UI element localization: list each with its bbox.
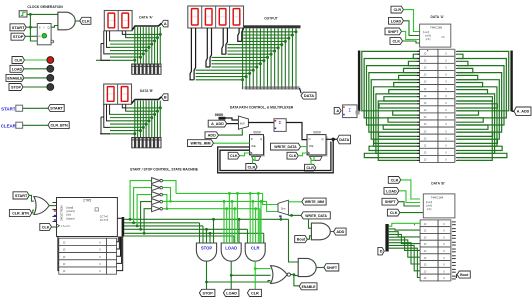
svg-text:,D: ,D bbox=[424, 151, 427, 155]
svg-text:CLK: CLK bbox=[289, 154, 297, 158]
svg-text:Dmx: Dmx bbox=[281, 208, 287, 210]
svg-text:Bout: Bout bbox=[460, 273, 469, 277]
wire cells left stair (black) bbox=[57, 237, 60, 272]
svg-text:,D: ,D bbox=[424, 73, 427, 77]
svg-text:CLK: CLK bbox=[392, 40, 400, 44]
wire LOAD to LED bbox=[24, 68, 47, 70]
wire state bus lines (6) bbox=[124, 219, 289, 236]
wire feedback loop outer bbox=[218, 139, 334, 173]
svg-text:B: B bbox=[164, 96, 167, 100]
svg-text:STOP: STOP bbox=[13, 34, 24, 39]
svg-text:,D: ,D bbox=[424, 242, 427, 246]
register U15 head (74HC166) bbox=[420, 24, 451, 47]
terminal WRITE_IMM (out) bbox=[302, 198, 326, 205]
wire fan reg A right chain upper bbox=[457, 54, 497, 108]
node STOP branch bbox=[205, 281, 208, 284]
svg-text:,D: ,D bbox=[424, 122, 427, 126]
wire bus bar to A_ADD bbox=[512, 110, 514, 112]
node DATA junction bbox=[332, 138, 335, 141]
wire output grid verticals bbox=[243, 28, 296, 87]
svg-text:Bout: Bout bbox=[297, 238, 306, 242]
svg-text:74HC164: 74HC164 bbox=[431, 196, 444, 200]
bus bar (reg A right) bbox=[510, 51, 512, 112]
svg-text:,D: ,D bbox=[424, 249, 427, 253]
node bus taps bbox=[212, 218, 215, 221]
svg-text:[clk]: [clk] bbox=[426, 37, 431, 41]
terminal SHIFT (reg B) bbox=[382, 198, 399, 205]
register U15 cells (16 rows) bbox=[417, 49, 457, 162]
wire fan reg A left chain lower bbox=[364, 111, 419, 158]
wire CLK to reg B bbox=[400, 212, 423, 214]
svg-text:LOAD: LOAD bbox=[226, 291, 237, 295]
wire black bus to terminal bbox=[132, 23, 161, 30]
svg-text:ENABLE: ENABLE bbox=[302, 285, 317, 289]
svg-text:WRITE_DATA: WRITE_DATA bbox=[274, 145, 297, 149]
NOR gate U43 bbox=[271, 266, 288, 284]
wire display pin stair (black) bbox=[122, 104, 126, 111]
inverter U31 bbox=[152, 185, 160, 191]
terminal A_ADD (input) bbox=[208, 120, 227, 127]
wire fan reg A right chain lower bbox=[457, 111, 507, 158]
wire CLK to counter bbox=[52, 226, 57, 228]
terminal STOP bbox=[11, 33, 25, 40]
terminal CLR (reg1) bbox=[246, 164, 257, 171]
svg-text:[clk]: [clk] bbox=[427, 207, 432, 211]
terminal LOAD (reg B) bbox=[384, 187, 399, 194]
wire H2 corner to mux input bbox=[267, 201, 278, 211]
svg-text:,D: ,D bbox=[424, 222, 427, 226]
wire mux out to adder bbox=[248, 122, 274, 124]
terminal START (state machine) bbox=[13, 192, 29, 199]
adder U11 bbox=[274, 119, 286, 132]
connector strip (grid bottom) bbox=[245, 86, 300, 89]
terminal A (bus) bbox=[334, 107, 341, 114]
terminal CLK (reg A) bbox=[390, 38, 403, 45]
svg-text:[down]: [down] bbox=[67, 216, 75, 220]
wire output grid rows with junctions bbox=[196, 30, 298, 81]
multiplexer U45 (demux) bbox=[278, 200, 288, 215]
terminal LOAD (reg A) bbox=[389, 17, 404, 24]
wire Bout to AND bbox=[307, 236, 311, 239]
svg-text:,D: ,D bbox=[424, 229, 427, 233]
wire switch START to terminal bbox=[23, 107, 48, 109]
svg-text:,D: ,D bbox=[63, 262, 66, 266]
terminal LOAD (out) bbox=[223, 289, 239, 296]
svg-text:STOP: STOP bbox=[11, 86, 22, 90]
svg-text:S: S bbox=[43, 25, 45, 29]
svg-text:,D: ,D bbox=[424, 263, 427, 267]
svg-text:DATA: DATA bbox=[304, 93, 314, 98]
svg-text:WRITE_IMM: WRITE_IMM bbox=[190, 142, 210, 146]
svg-text:CLEAR: CLEAR bbox=[1, 123, 17, 128]
svg-text:[load]: [load] bbox=[426, 200, 433, 204]
state cells (5 rows) bbox=[59, 238, 117, 274]
multiplexer U10 bbox=[238, 116, 248, 129]
AND gate U46 (ADD) bbox=[311, 223, 330, 240]
terminal D (bus) bbox=[378, 247, 384, 255]
svg-text:,D: ,D bbox=[63, 269, 66, 273]
svg-text:0000: 0000 bbox=[313, 131, 321, 135]
terminal CLK (state machine) bbox=[40, 223, 52, 230]
OR gate U20 bbox=[34, 197, 49, 215]
svg-text:CLR_BTN: CLR_BTN bbox=[12, 212, 29, 216]
AND gate LOAD (U41) bbox=[221, 243, 241, 261]
svg-text:CLR: CLR bbox=[14, 59, 22, 63]
resistor pack RN (B) bbox=[131, 137, 161, 148]
LED D_LOAD bbox=[47, 65, 54, 72]
resistor bar RN3 (top) bbox=[244, 25, 301, 28]
register U16 cells (9 rows) bbox=[420, 220, 456, 281]
svg-text:Σ: Σ bbox=[279, 120, 282, 125]
svg-text:,D: ,D bbox=[424, 256, 427, 260]
wire AND out to ADD bbox=[330, 231, 333, 233]
AND gate CLR (U42) bbox=[245, 243, 265, 261]
register U12 (latch 1) bbox=[251, 136, 265, 156]
inverter U33 bbox=[152, 199, 160, 205]
node on START wire bbox=[29, 26, 32, 29]
register U16 head (74HC164) bbox=[423, 194, 455, 218]
terminal CLR (reg B) bbox=[388, 177, 401, 184]
svg-text:,D: ,D bbox=[424, 115, 427, 119]
bus bar D (reg B input) bbox=[385, 224, 388, 252]
svg-text:CLR: CLR bbox=[248, 165, 256, 169]
inverter U32 bbox=[152, 192, 160, 198]
node LOAD branch bbox=[230, 274, 233, 277]
wire buffer3 out to H3 bbox=[163, 195, 167, 209]
svg-text:DATA: DATA bbox=[339, 138, 349, 142]
terminal Bout (input) bbox=[295, 236, 308, 243]
svg-text:A_ADD: A_ADD bbox=[517, 110, 530, 114]
wire fan D bus to register B rows bbox=[389, 223, 420, 277]
wire buffer4 out (H2 long) bbox=[163, 200, 267, 202]
terminal ENABLE (indicator) bbox=[6, 74, 24, 81]
svg-text:D: D bbox=[308, 137, 310, 141]
terminal CLR_BTN bbox=[48, 121, 69, 128]
svg-text:CLK: CLK bbox=[390, 211, 398, 215]
wire bus line3 corner to STOP gate bbox=[202, 226, 204, 243]
svg-text:CLK: CLK bbox=[230, 154, 238, 158]
svg-text:ADD: ADD bbox=[208, 134, 216, 138]
terminal START (net) bbox=[48, 104, 64, 111]
svg-text:START / STOP CONTROL, STATE MA: START / STOP CONTROL, STATE MACHINE bbox=[130, 168, 199, 172]
terminal CLR (out) bbox=[247, 289, 261, 296]
svg-text:,D: ,D bbox=[424, 58, 427, 62]
svg-text:START: START bbox=[1, 106, 16, 111]
wire H1 corner to mux input bbox=[263, 193, 278, 204]
terminal CLK (reg1) bbox=[228, 152, 239, 159]
wire CLK to reg A bbox=[403, 41, 420, 43]
wire display pin stair black (output) bbox=[190, 28, 243, 80]
svg-text:A: A bbox=[164, 22, 167, 26]
wire fan reg A right U-loops bbox=[457, 51, 509, 160]
svg-text:SHIFT: SHIFT bbox=[385, 200, 396, 204]
wire WRITE_DATA to reg2 bbox=[301, 146, 308, 148]
terminal B (bus) bbox=[161, 94, 168, 101]
wire switch CLEAR to terminal bbox=[23, 124, 48, 126]
svg-text:ENABLE: ENABLE bbox=[7, 76, 23, 80]
svg-text:,D: ,D bbox=[424, 80, 427, 84]
svg-text:D: D bbox=[380, 250, 383, 254]
terminal CLK bbox=[80, 17, 91, 24]
wire H1 long bbox=[176, 192, 263, 194]
wire ENABLE to LED bbox=[24, 77, 47, 79]
wire STOP to LED bbox=[23, 86, 47, 88]
wire ADD to mux select bbox=[219, 129, 243, 135]
latch U2 SR flip-flop bbox=[37, 24, 51, 45]
svg-text:OUTPUT: OUTPUT bbox=[264, 17, 278, 21]
svg-text:WRITE_DATA: WRITE_DATA bbox=[305, 214, 327, 218]
wire CLR to reg A bbox=[404, 10, 420, 32]
bus bar (reg A left) bbox=[358, 51, 360, 112]
wire buffer2 out to H2 bbox=[163, 188, 171, 202]
svg-text:,D: ,D bbox=[424, 94, 427, 98]
wire adder out to register2 D bbox=[286, 123, 307, 140]
svg-text:LOAD: LOAD bbox=[225, 245, 237, 250]
svg-text:,D: ,D bbox=[424, 66, 427, 70]
svg-text:,D: ,D bbox=[424, 276, 427, 280]
terminal START bbox=[10, 24, 26, 31]
svg-text:SHIFT: SHIFT bbox=[388, 30, 399, 34]
wire segment rows with junctions bbox=[96, 33, 162, 62]
wire bus line1 tap to LOAD gate bbox=[238, 218, 241, 221]
terminal SHIFT (reg A) bbox=[385, 28, 402, 35]
svg-text:2CT=0: 2CT=0 bbox=[100, 215, 109, 219]
svg-text:START: START bbox=[50, 106, 63, 111]
svg-text:,D: ,D bbox=[424, 108, 427, 112]
svg-text:MUX: MUX bbox=[240, 123, 246, 125]
wire STOP to latch R bbox=[25, 35, 37, 37]
wire SHIFT to reg A bbox=[402, 31, 420, 39]
svg-text:A: A bbox=[336, 109, 339, 113]
terminal A (bus) bbox=[161, 20, 168, 27]
node NOR branch bbox=[293, 273, 296, 276]
svg-text:LOAD: LOAD bbox=[12, 67, 23, 71]
wire buffer1 out to H1 bbox=[163, 181, 177, 194]
terminal WRITE_IMM (datapath) bbox=[188, 140, 214, 147]
wire bus taps to STOP gate bbox=[205, 228, 208, 231]
LED D_STOP bbox=[47, 84, 54, 91]
svg-text:CLR: CLR bbox=[391, 178, 399, 182]
AND gate U44 (SHIFT) bbox=[298, 258, 316, 276]
svg-text:,D: ,D bbox=[63, 240, 66, 244]
wire LOAD gate bright inputs bbox=[223, 201, 225, 243]
wire CLR to reg B bbox=[401, 180, 420, 199]
wire CLR branch to NOR bbox=[255, 268, 270, 270]
svg-text:CLR: CLR bbox=[393, 8, 401, 12]
svg-text:CLOCK GENERATION: CLOCK GENERATION bbox=[27, 5, 63, 9]
svg-text:CLR: CLR bbox=[251, 291, 259, 295]
terminal DATA (output bus) bbox=[301, 92, 316, 99]
svg-text:4CT=5: 4CT=5 bbox=[100, 218, 109, 222]
svg-text:START: START bbox=[15, 194, 28, 198]
svg-text:,D: ,D bbox=[424, 269, 427, 273]
wire STOP branch to NOR bbox=[207, 281, 271, 283]
svg-text:STOP: STOP bbox=[203, 291, 214, 295]
wire branch down to ADD AND bbox=[309, 220, 312, 229]
svg-text:SRG/CTRDIV: SRG/CTRDIV bbox=[60, 205, 64, 221]
counter U21 (CTR) bbox=[57, 198, 118, 237]
svg-text:,D: ,D bbox=[424, 235, 427, 239]
terminal ADD (input) bbox=[205, 132, 219, 139]
svg-text:DATA 'A': DATA 'A' bbox=[139, 15, 153, 19]
wire LOAD to reg B bbox=[399, 191, 420, 203]
svg-text:A_ADD: A_ADD bbox=[211, 122, 224, 126]
switch SW2 bbox=[16, 122, 23, 128]
svg-text:WE: WE bbox=[251, 144, 256, 148]
wire mux to WRITE_DATA bbox=[288, 214, 301, 216]
wire clock junction down to latch bbox=[30, 14, 37, 41]
svg-text:S: S bbox=[39, 25, 41, 29]
wire constant to mux bbox=[226, 118, 239, 120]
wire CLR to LED bbox=[25, 59, 47, 61]
terminal ENABLE (out) bbox=[299, 283, 317, 290]
svg-text:,D: ,D bbox=[63, 255, 66, 259]
wire STOP gate output bbox=[206, 261, 208, 289]
terminal CLK (reg B) bbox=[387, 209, 400, 216]
inverter U30 bbox=[152, 178, 160, 184]
wire OR to counter bbox=[49, 205, 56, 207]
svg-text:,D: ,D bbox=[424, 136, 427, 140]
svg-text:CLR_BTN: CLR_BTN bbox=[50, 124, 68, 128]
wire fan reg A left U-loops bbox=[362, 51, 420, 160]
wire SHIFT to reg B bbox=[399, 202, 421, 206]
wire reg B last row to Bout bbox=[456, 275, 457, 278]
wire buffer input verticals bbox=[129, 181, 152, 235]
svg-text:CLR: CLR bbox=[251, 245, 260, 250]
register U13 (latch 2) bbox=[309, 136, 328, 156]
wire A_ADD to mux bbox=[227, 123, 239, 125]
wire H3 corner to CLR gate bbox=[259, 209, 261, 243]
terminal CLR (reg2) bbox=[305, 164, 316, 171]
wire LOAD branch to NOR bbox=[231, 274, 270, 276]
switch SW1 bbox=[16, 105, 23, 111]
svg-text:,D: ,D bbox=[424, 51, 427, 55]
wire latch Q to AND gate bbox=[51, 26, 58, 28]
wire clock to AND gate bbox=[27, 13, 58, 15]
wire CLR to reg1 bottom bbox=[253, 157, 256, 164]
svg-text:WE: WE bbox=[309, 144, 314, 148]
svg-text:ADD: ADD bbox=[336, 230, 344, 234]
terminal CLR (indicator) bbox=[12, 57, 25, 64]
wire NOR branch to ENABLE bbox=[294, 275, 299, 286]
svg-text:74HC166: 74HC166 bbox=[430, 26, 443, 30]
7-seg display B bbox=[104, 84, 132, 104]
terminal STOP (out) bbox=[199, 289, 215, 296]
wire LOAD gate output bbox=[230, 261, 232, 289]
terminal WRITE_DATA (out) bbox=[301, 212, 330, 219]
7-seg display A bbox=[104, 11, 132, 31]
terminal STOP (indicator) bbox=[9, 84, 23, 91]
terminal CLR_BTN (state machine) bbox=[9, 209, 31, 216]
wire CLK to reg1 bbox=[240, 153, 250, 156]
inverter U34 bbox=[152, 206, 160, 212]
wire START to OR bbox=[29, 195, 34, 201]
svg-text:CLR: CLR bbox=[306, 166, 314, 170]
svg-text:D: D bbox=[251, 137, 253, 141]
svg-text:DATA PATH CONTROL, & MULTIPLEX: DATA PATH CONTROL, & MULTIPLEXER bbox=[230, 105, 294, 109]
svg-text:[count]: [count] bbox=[67, 209, 75, 213]
AND gate U1 bbox=[58, 12, 75, 30]
svg-text:[shift]: [shift] bbox=[426, 204, 432, 208]
wire WRITE_IMM to reg1 bbox=[214, 142, 250, 144]
wire bus verticals bbox=[135, 101, 160, 137]
wire bus line2 corner to STOP gate bbox=[199, 223, 201, 243]
LED D_ENABLE bbox=[47, 75, 54, 82]
wire CLR_BTN to OR bbox=[32, 210, 34, 213]
svg-text:START: START bbox=[12, 25, 25, 30]
wire feedback loop inner bbox=[220, 142, 331, 171]
svg-text:LOAD: LOAD bbox=[391, 19, 402, 23]
adder U14 (A+B) bbox=[343, 105, 357, 118]
svg-text:SHIFT: SHIFT bbox=[327, 266, 338, 270]
svg-text:DATA 'B': DATA 'B' bbox=[140, 89, 154, 93]
svg-text:1,5+/1,5-: 1,5+/1,5- bbox=[61, 225, 71, 228]
wire NOR out to AND bbox=[291, 275, 299, 276]
wire mux to WRITE_IMM bbox=[288, 201, 301, 203]
svg-text:0000: 0000 bbox=[253, 131, 261, 135]
terminal ADD (out) bbox=[334, 228, 347, 235]
svg-text:,D: ,D bbox=[424, 158, 427, 162]
terminal CLR (reg A) bbox=[391, 6, 404, 13]
AND gate STOP (U40) bbox=[196, 243, 216, 261]
terminal A_ADD (reg A out) bbox=[514, 107, 531, 115]
wire CLR gate bright inputs bbox=[249, 193, 251, 243]
svg-text:DATA 'A': DATA 'A' bbox=[430, 15, 444, 19]
wire black bus to terminal bbox=[132, 97, 162, 104]
node clock junction bbox=[29, 13, 32, 16]
terminal WRITE_DATA bbox=[271, 143, 301, 150]
svg-text:Σ: Σ bbox=[349, 108, 352, 113]
wire bus line4 corner to CLR gate bbox=[247, 229, 249, 243]
wire LOAD to reg A bbox=[404, 21, 420, 36]
clock source X1 bbox=[19, 11, 27, 17]
terminal SHIFT (out) bbox=[324, 264, 339, 271]
node CLR branch bbox=[254, 267, 257, 270]
svg-text:CLK: CLK bbox=[42, 225, 50, 229]
svg-text:0000: 0000 bbox=[215, 113, 223, 117]
wire bus line1 corner to SHIFT AND gate bbox=[289, 219, 299, 262]
svg-text:,D: ,D bbox=[424, 101, 427, 105]
svg-text:,D: ,D bbox=[424, 143, 427, 147]
svg-text:CLK: CLK bbox=[82, 18, 90, 23]
resistor pack RN (A) bbox=[131, 64, 161, 75]
wire display pin stair (black) bbox=[122, 31, 126, 38]
svg-text:[clr]: [clr] bbox=[67, 213, 72, 217]
wire reg2 Q to DATA node bbox=[326, 138, 337, 140]
terminal CLK (reg2) bbox=[287, 152, 298, 159]
wire bus verticals bbox=[135, 27, 160, 63]
svg-text:C3/: C3/ bbox=[441, 36, 445, 39]
wire bus bar to adder bbox=[357, 112, 359, 114]
svg-text:*: * bbox=[414, 223, 416, 227]
wire grid to DATA terminal bbox=[300, 88, 302, 93]
svg-text:DATA 'B': DATA 'B' bbox=[431, 182, 445, 186]
terminal DATA (datapath) bbox=[337, 135, 351, 144]
wire segment rows with junctions bbox=[100, 106, 162, 135]
wire bus line5 corner to CLR gate bbox=[263, 233, 265, 243]
wire CLR gate output bbox=[254, 261, 256, 289]
wire mux select from bus bbox=[280, 217, 282, 220]
svg-text:[load]: [load] bbox=[67, 206, 74, 210]
node WRITE_DATA branch bbox=[290, 214, 293, 217]
svg-text:,D: ,D bbox=[424, 87, 427, 91]
terminal Bout (reg B out) bbox=[457, 271, 470, 278]
svg-text:CTR5: CTR5 bbox=[83, 199, 92, 203]
wire buffer5 out (H3 long) bbox=[163, 208, 260, 210]
svg-text:,D: ,D bbox=[424, 129, 427, 133]
wire AND out to SHIFT bbox=[316, 267, 324, 269]
svg-text:WRITE_IMM: WRITE_IMM bbox=[305, 200, 325, 204]
